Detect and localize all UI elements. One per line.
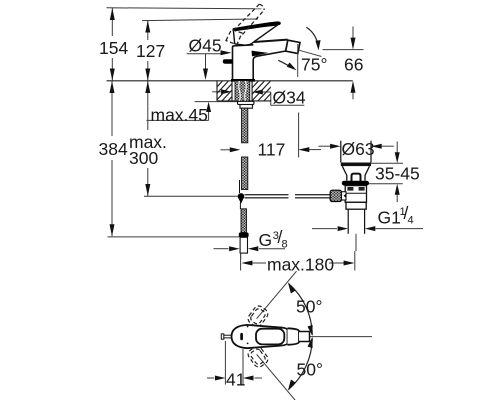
svg-text:154: 154: [99, 38, 128, 58]
svg-text:127: 127: [136, 41, 165, 61]
svg-text:max.180: max.180: [267, 255, 334, 275]
svg-text:Ø45: Ø45: [189, 36, 222, 56]
svg-text:max.45: max.45: [151, 105, 208, 125]
svg-text:50°: 50°: [297, 360, 323, 380]
svg-text:50°: 50°: [296, 297, 322, 317]
svg-text:384: 384: [99, 139, 128, 159]
svg-text:117: 117: [258, 140, 286, 160]
svg-text:Ø63: Ø63: [342, 139, 375, 159]
svg-text:G1: G1: [378, 208, 401, 228]
svg-text:75°: 75°: [301, 55, 327, 75]
svg-text:300: 300: [129, 148, 158, 168]
svg-text:G: G: [259, 230, 273, 250]
svg-text:Ø34: Ø34: [273, 88, 306, 108]
svg-text:41: 41: [226, 370, 245, 390]
svg-text:66: 66: [344, 55, 363, 75]
svg-text:8: 8: [282, 239, 288, 251]
svg-text:35-45: 35-45: [375, 164, 420, 184]
svg-text:4: 4: [408, 215, 414, 227]
